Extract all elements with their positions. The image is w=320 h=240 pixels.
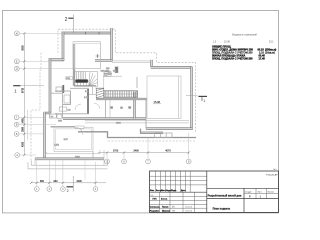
- title block header row bottom: [150, 191, 207, 193]
- title block lower-left columns: [159, 192, 161, 212]
- dashed roof overhang: [31, 29, 196, 161]
- terrace left vertical: [34, 158, 36, 166]
- section line 1-1: [21, 86, 198, 96]
- svg-text:10.08: 10.08: [224, 41, 230, 43]
- section mark 2 bottom: [67, 186, 74, 188]
- svg-text:В: В: [16, 123, 18, 127]
- title block mini grid columns: [155, 171, 157, 192]
- title block stadia table: [243, 188, 245, 212]
- svg-text:800: 800: [40, 180, 45, 183]
- dashed overhang bottom right: [108, 140, 196, 142]
- axis lines horizontal: [19, 33, 74, 155]
- label box tech room: [50, 114, 57, 118]
- wall step x=151.5: [151, 60, 153, 68]
- svg-text:План подвала: План подвала: [213, 207, 231, 210]
- vertical x=103.8: [103, 76, 105, 88]
- partition x=62.5 midleft: [62, 93, 64, 119]
- room label stair: [66, 77, 73, 80]
- svg-text:Шавлов: Шавлов: [162, 211, 171, 213]
- door arc 1: [75, 104, 81, 110]
- svg-text:(16кв.м): (16кв.м): [265, 51, 275, 54]
- title block texts: [150, 168, 278, 213]
- wall x=134.5: [134, 92, 136, 119]
- wall bottom center y=133: [140, 132, 163, 134]
- step corner bottom center: [78, 132, 196, 138]
- corridor partition x=110: [109, 99, 111, 119]
- dimension texts bottom: [40, 180, 82, 183]
- svg-text:1860: 1860: [22, 126, 25, 132]
- axis circles bottom-right: [105, 159, 192, 164]
- svg-text:Стадия: Стадия: [245, 191, 251, 193]
- svg-text:Попов: Попов: [162, 207, 169, 209]
- title block lower-left rows: [150, 196, 207, 198]
- top wall window jambs: [85, 32, 87, 35]
- title block right band lines: [207, 187, 279, 189]
- dimension line left vertical: [24, 33, 28, 155]
- door arc 2: [94, 103, 100, 109]
- wall top of right wing: [151, 66, 192, 68]
- wall y=91 left: [55, 90, 71, 92]
- wall vertical x=44.5: [44, 112, 46, 160]
- furniture marks corridor: [111, 107, 113, 109]
- dimension ticks bottom: [30, 182, 97, 184]
- corridor partition x=105.5: [105, 99, 107, 119]
- drawing frame: [2, 11, 278, 213]
- svg-text:ГИП: ГИП: [153, 199, 158, 201]
- svg-text:Р16-041-АР: Р16-041-АР: [266, 173, 278, 176]
- svg-text:4400: 4400: [76, 180, 82, 183]
- svg-text:Листов: Листов: [268, 191, 274, 193]
- svg-text:1460: 1460: [22, 118, 25, 124]
- svg-text:Об.: Об.: [151, 195, 155, 197]
- room upper-left rectangle: [73, 42, 101, 69]
- svg-text:4070: 4070: [165, 150, 171, 153]
- wall y=99 under stairs: [96, 98, 147, 100]
- svg-text:5600: 5600: [22, 45, 25, 51]
- wall bottom terrace main: [35, 158, 104, 160]
- right wing bottom double lines: [85, 120, 189, 122]
- wall bottom of right wing: [146, 128, 192, 130]
- wall step y=113: [44, 112, 51, 114]
- title block mini grid rows: [150, 175, 207, 177]
- column mark: [115, 67, 118, 73]
- wall x=74 center: [73, 44, 75, 86]
- svg-text:17.45: 17.45: [259, 58, 266, 61]
- svg-text:960: 960: [54, 180, 59, 183]
- svg-text:Согласов.: Согласов.: [150, 207, 160, 209]
- stair winder dark hatch: [75, 72, 98, 87]
- wall x=70.5: [70, 91, 72, 104]
- stair horizontal run treads: [104, 91, 138, 97]
- axis lines vertical: [37, 133, 189, 187]
- svg-text:4200: 4200: [22, 141, 25, 147]
- svg-text:Подп.: Подп.: [171, 190, 177, 192]
- right wing left thin wall: [145, 99, 147, 129]
- small room lines near stair foot: [89, 94, 96, 96]
- axis circles left: [14, 31, 19, 158]
- svg-text:Ведомость помещений: Ведомость помещений: [232, 33, 257, 36]
- hatch box above stairs: [104, 72, 111, 76]
- wall thick x=88 bathroom: [87, 89, 89, 114]
- svg-text:Е: Е: [16, 59, 18, 63]
- wall vertical at x=111.5: [111, 28, 113, 61]
- cross marker room1: [96, 54, 100, 58]
- svg-text:ПЛОЩ. ПОДВАЛА С УЧЕТОМ 250: ПЛОЩ. ПОДВАЛА С УЧЕТОМ 250: [212, 58, 253, 61]
- svg-text:910 1010: 910 1010: [101, 71, 111, 73]
- terrace step line 3: [28, 162, 108, 169]
- terrace step line 2: [31, 160, 107, 165]
- dimension line bottom: [31, 182, 106, 184]
- svg-text:Белов: Белов: [161, 199, 168, 201]
- tiny interior dim cluster above stairs: [101, 68, 118, 76]
- wall y=88: [70, 87, 89, 89]
- line y=76 above stairs: [103, 75, 122, 77]
- stair landing hatch box: [96, 88, 104, 98]
- dimension ticks left: [23, 32, 25, 156]
- wall right of right wing: [191, 67, 193, 131]
- svg-text:12.05.16: 12.05.16: [185, 211, 192, 213]
- right wing inner room: [147, 76, 181, 118]
- dimension texts bottom-right: [113, 150, 171, 153]
- fixture wc: [57, 114, 61, 118]
- svg-text:Б: Б: [16, 132, 18, 136]
- dashed overhang left: [31, 53, 41, 161]
- room lower-left rectangle: [54, 127, 93, 151]
- svg-text:2400: 2400: [133, 150, 139, 153]
- wall left of upper-left block: [62, 32, 64, 61]
- dashed overhang upper-left: [58, 29, 196, 133]
- door arc 3: [80, 127, 86, 133]
- wall top of upper-left block: [62, 32, 113, 34]
- section mark 2 top: [68, 17, 73, 19]
- fixture sink: [59, 107, 66, 111]
- wall pier at x=63 y=85-93: [62, 85, 64, 93]
- dimension texts left (rotated): [22, 45, 25, 147]
- line y=88 left of stairs: [95, 87, 104, 89]
- wall y=86: [74, 85, 96, 87]
- axis circles bottom: [34, 187, 98, 192]
- thin structural lines: [28, 29, 196, 169]
- svg-text:2: 2: [65, 17, 68, 23]
- section mark 1 right: [198, 95, 207, 97]
- door gap room lower-left: [75, 126, 84, 128]
- svg-text:Изм.: Изм.: [150, 190, 155, 192]
- rows bottom dense: [150, 207, 171, 213]
- title block outer: [150, 171, 279, 212]
- svg-text:№1.: №1.: [273, 168, 277, 171]
- section line 2-2 vertical: [72, 15, 74, 192]
- dimension line bottom-right: [98, 152, 189, 154]
- axis circle numbers bottom-right: [106, 160, 190, 164]
- steps rect bottom center: [155, 133, 172, 138]
- svg-text:9730: 9730: [22, 87, 25, 93]
- fixture tub: [64, 95, 70, 103]
- title block divider main: [206, 171, 208, 212]
- wall step horizontal y=59.5: [49, 59, 65, 61]
- wall y=127 left: [51, 126, 81, 128]
- window band top right of block y=61-63: [112, 60, 151, 62]
- wall horizontal y=118.7: [63, 118, 146, 120]
- svg-text:Разработ.: Разработ.: [150, 210, 160, 213]
- wall vertical x=50: [49, 59, 51, 113]
- wall y=104.5: [63, 104, 71, 106]
- vertical x=137 window jamb: [136, 77, 138, 88]
- room right wall extension: [92, 151, 94, 158]
- wall horizontal y=60.5 center: [95, 60, 113, 62]
- svg-text:2: 2: [67, 189, 69, 193]
- axis circle numbers bottom: [36, 187, 97, 191]
- svg-text:1: 1: [203, 99, 205, 103]
- step connector: [140, 129, 142, 133]
- terrace right vertical: [103, 150, 105, 165]
- svg-text:Лист: Лист: [258, 191, 262, 193]
- svg-text:А: А: [16, 153, 18, 157]
- label box midleft: [56, 87, 62, 91]
- svg-text:15.08: 15.08: [154, 100, 161, 104]
- dimension ticks bottom-right: [106, 151, 190, 153]
- wall y=113.8: [55, 113, 89, 115]
- partition y=93.2 midleft: [51, 92, 63, 94]
- svg-text:1700: 1700: [113, 150, 119, 153]
- axis circle letters left: [16, 31, 19, 157]
- svg-text:12.05.16: 12.05.16: [185, 207, 192, 209]
- terrace step line 1: [47, 150, 100, 154]
- svg-text:120·600: 120·600: [104, 74, 112, 76]
- section mark 1 left: [13, 85, 20, 87]
- room label 15.0: [154, 100, 161, 104]
- svg-text:Разработанный жилой дом: Разработанный жилой дом: [208, 195, 242, 198]
- svg-text:Д: Д: [16, 67, 18, 71]
- svg-text:23.1: 23.1: [269, 41, 274, 43]
- header row cells dark: [150, 189, 187, 192]
